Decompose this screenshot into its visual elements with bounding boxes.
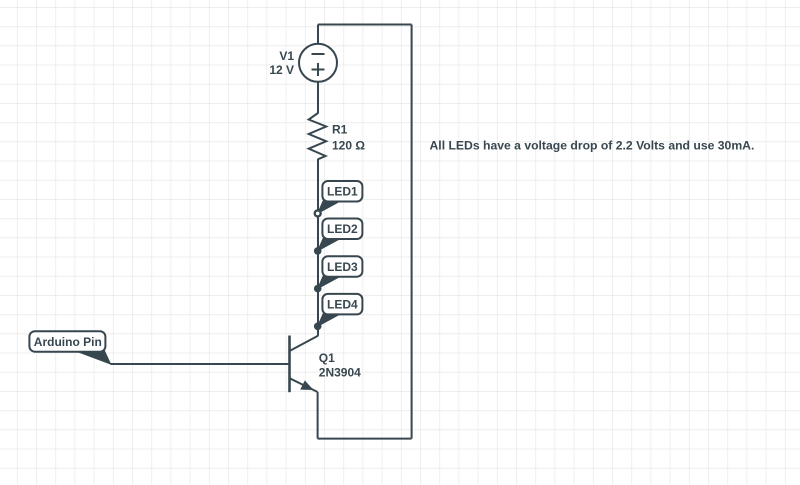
node LED1 junction	[314, 209, 322, 217]
wire bottom: emitter to right rail	[318, 438, 412, 440]
node LED2 junction	[314, 247, 322, 255]
callout LED1	[318, 181, 363, 213]
resistor R1	[309, 113, 366, 159]
svg-text:Q1: Q1	[319, 351, 335, 365]
wire V1 to R1	[317, 82, 319, 114]
wire V1 top lead	[317, 25, 319, 45]
wire right rail	[411, 25, 413, 439]
callout LED3	[318, 256, 363, 288]
wire Q1 emitter lead	[317, 392, 319, 439]
svg-text:LED3: LED3	[327, 260, 358, 274]
svg-text:120 Ω: 120 Ω	[332, 139, 365, 153]
callout LED2	[318, 219, 363, 251]
node LED4 junction	[314, 323, 322, 331]
callout LED4	[318, 294, 363, 326]
voltage source V1	[269, 44, 337, 82]
svg-text:LED1: LED1	[327, 185, 358, 199]
svg-text:Arduino Pin: Arduino Pin	[34, 335, 102, 349]
wire R1 to Q1 collector (through LED nodes)	[317, 159, 319, 336]
svg-text:R1: R1	[332, 123, 348, 137]
svg-text:V1: V1	[279, 49, 294, 63]
transistor Q1	[290, 326, 362, 392]
callout Arduino Pin	[29, 331, 110, 364]
svg-text:LED2: LED2	[327, 222, 358, 236]
wire top: V1 top to right rail	[318, 24, 412, 26]
node LED3 junction	[314, 285, 322, 293]
svg-text:All LEDs have a voltage drop o: All LEDs have a voltage drop of 2.2 Volt…	[430, 139, 755, 153]
svg-text:LED4: LED4	[327, 298, 358, 312]
svg-text:2N3904: 2N3904	[319, 366, 361, 380]
svg-text:12 V: 12 V	[269, 63, 294, 77]
wire base: Arduino Pin to Q1	[111, 363, 290, 365]
